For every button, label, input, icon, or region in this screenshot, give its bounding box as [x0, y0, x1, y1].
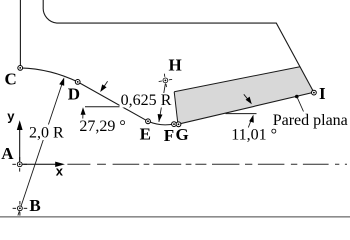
- point D marker: [75, 80, 80, 85]
- white mask under 0,625 R: [120, 93, 174, 108]
- point A centre mark: [12, 157, 27, 172]
- svg-text:R: R: [161, 92, 172, 109]
- point G marker: [176, 122, 181, 127]
- svg-text:I: I: [319, 84, 326, 103]
- wall top internal edge: [174, 67, 300, 92]
- svg-text:E: E: [140, 125, 151, 144]
- 11,01 deg arrow to wall edge: [244, 94, 249, 100]
- point F marker: [172, 122, 177, 127]
- 11,01 deg up arrow: [248, 118, 252, 128]
- Pared plana leader: [297, 97, 304, 112]
- white mask under 2,0 R: [28, 125, 66, 141]
- svg-text:0,625: 0,625: [121, 92, 157, 109]
- Pared plana leader dot: [295, 95, 299, 99]
- 27,29 deg horizontal reference: [85, 106, 122, 108]
- svg-text:Pared plana: Pared plana: [273, 112, 348, 129]
- svg-text:F: F: [164, 126, 174, 145]
- svg-text:D: D: [68, 85, 80, 104]
- y axis: [19, 130, 21, 165]
- leader 2,0 R: [18, 81, 63, 216]
- centerline: [67, 163, 347, 165]
- 27,29 deg up arrow: [82, 111, 84, 119]
- point H centre mark: [158, 73, 174, 89]
- x axis: [20, 163, 56, 165]
- pared plana shaded region: [174, 67, 314, 125]
- leader 0,625 R from centre H: [159, 84, 166, 122]
- svg-text:y: y: [7, 109, 15, 124]
- wall left internal edge: [174, 92, 178, 124]
- 11,01 deg horizontal reference: [226, 113, 257, 115]
- svg-text:A: A: [1, 144, 14, 163]
- part outline: [20, 0, 313, 125]
- svg-text:27,29 °: 27,29 °: [79, 118, 125, 135]
- point E marker: [146, 119, 151, 124]
- svg-text:C: C: [5, 70, 17, 89]
- svg-text:2,0 R: 2,0 R: [29, 125, 64, 142]
- svg-text:G: G: [176, 125, 189, 144]
- bottom rule: [0, 216, 350, 218]
- point C marker: [18, 66, 23, 71]
- svg-text:B: B: [29, 196, 40, 215]
- 27,29 deg arrow to line DE: [103, 81, 108, 88]
- svg-text:x: x: [56, 163, 64, 178]
- svg-text:11,01 °: 11,01 °: [231, 127, 277, 144]
- svg-text:H: H: [169, 56, 182, 75]
- point I marker: [312, 90, 317, 95]
- point B centre mark: [13, 201, 28, 216]
